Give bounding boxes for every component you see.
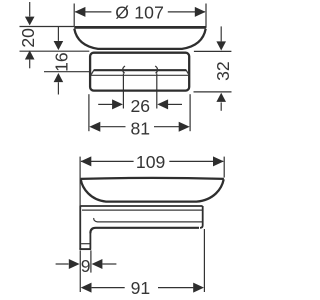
dish foot arc right	[155, 66, 157, 73]
bracket end cap	[200, 206, 203, 228]
svg-text:16: 16	[52, 52, 72, 72]
svg-text:32: 32	[213, 61, 233, 81]
16 dim stems	[57, 27, 59, 41]
bracket inner bend line	[94, 218, 203, 222]
wall plate inner face	[89, 233, 91, 249]
wall plate outer face	[79, 205, 81, 249]
ledge hook left	[91, 70, 94, 75]
dimension line 9 approach right	[102, 263, 116, 265]
dish rim front view	[74, 26, 206, 29]
holder ledge bottom line	[91, 74, 189, 76]
extension line 109 right	[223, 157, 225, 178]
arrowhead 26 left	[112, 99, 123, 109]
arrowhead 32 top	[216, 41, 226, 50]
holder ledge top line	[94, 69, 187, 71]
wall plate bottom	[79, 248, 91, 250]
extension line 16 bottom	[44, 71, 91, 73]
dimension line 91	[92, 287, 125, 289]
ledge hook right	[186, 70, 189, 75]
dish foot arc left	[123, 66, 125, 73]
arrowhead 16 bottom	[54, 73, 64, 82]
dimension line dia 107	[75, 11, 111, 13]
dimension line 9 approach left	[56, 263, 69, 265]
extension lines 81	[88, 94, 90, 131]
svg-text:9: 9	[81, 256, 91, 276]
svg-text:20: 20	[18, 28, 38, 48]
arrowhead 9 right	[92, 259, 103, 269]
arrowhead 109 right	[213, 156, 224, 166]
arrowhead dia107 right	[195, 7, 206, 17]
svg-text:109: 109	[136, 152, 165, 172]
arrowhead 20 top	[25, 17, 35, 26]
holder box front view	[90, 53, 189, 91]
arrowhead 91 left	[81, 283, 92, 293]
20 dim stems	[29, 2, 31, 16]
extension line 20 bottom / 16 top	[20, 50, 90, 52]
arrowhead 9 left	[69, 259, 80, 269]
dimension line 81	[101, 126, 126, 128]
extension line 91 right	[203, 229, 205, 292]
bracket arm bottom	[90, 228, 199, 233]
extension line 109 left	[79, 157, 81, 206]
extension line left of dia 107	[73, 4, 75, 27]
dimension line 109	[81, 160, 134, 162]
dish bowl outline front view	[74, 29, 205, 49]
extension lines 32	[194, 50, 232, 52]
svg-text:Ø 107: Ø 107	[115, 3, 164, 23]
dim texts top view	[18, 3, 233, 139]
arrowhead 91 right	[193, 283, 204, 293]
dimension line 26 approach right	[168, 103, 182, 105]
arrowhead dia107 left	[75, 7, 86, 17]
arrowhead 16 top	[54, 41, 64, 50]
dimension line 26 approach left	[98, 103, 112, 105]
svg-text:81: 81	[131, 118, 151, 138]
svg-text:26: 26	[131, 96, 151, 116]
bracket shelf top line	[80, 205, 202, 207]
svg-text:91: 91	[131, 278, 151, 298]
arrowhead 81 right	[179, 122, 190, 132]
extension line right of dia 107	[205, 4, 207, 28]
arrowhead 20 bottom	[25, 50, 35, 59]
dish bowl outline side view	[81, 179, 224, 201]
arrowhead 26 right	[157, 99, 168, 109]
bracket shelf lower line	[82, 209, 203, 211]
dish rim side view	[81, 178, 224, 179]
32 dim stems	[220, 26, 222, 41]
arrowhead 32 bottom	[216, 93, 226, 102]
arrowhead 81 left	[89, 122, 100, 132]
wall plate foot step	[81, 243, 89, 245]
extension lines 9	[79, 250, 81, 292]
extension line 20 top	[20, 26, 75, 28]
arrowhead 109 left	[81, 156, 92, 166]
dim texts bottom view	[81, 152, 166, 298]
extension lines 26	[122, 74, 124, 109]
